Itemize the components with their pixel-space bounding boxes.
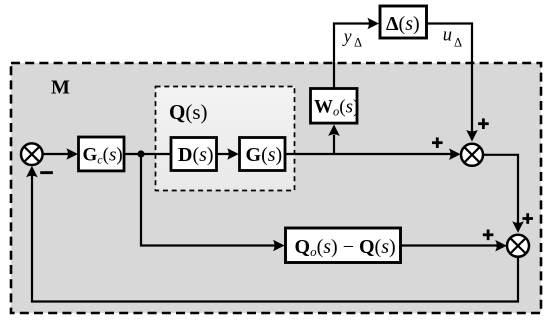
summing junction S3 (lower right): [507, 235, 529, 257]
svg-text:G(s): G(s): [246, 144, 283, 166]
wire: S1 to Gc: [42, 148, 78, 160]
label y_delta: [342, 26, 362, 50]
wire: D to G with arrow: [217, 148, 239, 160]
svg-text:Qo(s) − Q(s): Qo(s) − Q(s): [295, 236, 396, 259]
wire: Delta down to S2: [427, 24, 478, 142]
plus sign left of S3 (above horizontal wire): [483, 230, 494, 241]
svg-text:Δ: Δ: [454, 36, 462, 50]
block Qo(s)-Q(s): [286, 228, 401, 263]
plus sign left of S2 (above horizontal wire): [432, 137, 443, 148]
summing junction S2 (upper right): [461, 144, 483, 166]
label M: [51, 77, 70, 99]
wire: branch down from dot to Qo-Q block: [141, 154, 285, 251]
svg-text:M: M: [51, 77, 70, 99]
wire: Wo up to Delta: [334, 18, 379, 89]
svg-text:Q(s): Q(s): [169, 100, 208, 124]
plus sign above S3 (right of vertical wire): [522, 213, 533, 224]
plus sign above S2 (right of vertical wire): [478, 118, 489, 129]
wire: branch up to Wo: [328, 124, 340, 154]
block Gc(s): [79, 137, 125, 171]
block G(s): [240, 138, 286, 171]
svg-text:u: u: [443, 26, 452, 46]
label u_delta: [443, 26, 462, 50]
block Delta(s): [380, 6, 427, 38]
svg-text:y: y: [342, 26, 352, 46]
wire: S2 out right and down to S3: [483, 155, 524, 233]
dashed box M: [11, 63, 541, 313]
junction dot: [137, 150, 144, 157]
block D(s): [171, 138, 217, 171]
wire: Gc to D(s): [124, 153, 171, 155]
svg-text:Δ: Δ: [354, 36, 362, 50]
dashed box Q(s): [156, 87, 295, 191]
wire: feedback bottom path: [26, 166, 518, 302]
wire: G to S2: [285, 148, 461, 160]
block Wo(s): [311, 89, 360, 124]
svg-text:D(s): D(s): [178, 144, 214, 166]
svg-text:Δ(s): Δ(s): [386, 13, 420, 35]
minus sign: [40, 171, 53, 174]
wire: Qo-Q block to S3: [401, 240, 507, 252]
label Q(s): [169, 100, 208, 124]
svg-text:Gc(s): Gc(s): [83, 145, 123, 167]
summing junction S1 (left): [21, 143, 43, 165]
